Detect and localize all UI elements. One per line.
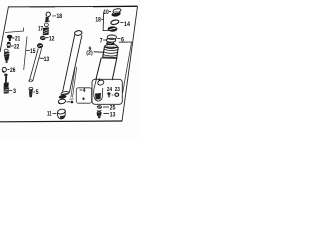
screw under 24 xyxy=(107,92,110,94)
ring 7 xyxy=(107,35,116,39)
label 5 xyxy=(33,91,35,93)
svg-text:12: 12 xyxy=(49,36,55,43)
label 14 xyxy=(120,21,123,23)
tube bottom rim xyxy=(61,91,69,95)
boot ribbed body xyxy=(103,47,119,58)
label 13 xyxy=(40,57,45,59)
bolt 13 bottom xyxy=(97,110,101,112)
label 4 xyxy=(80,89,83,91)
label 12 xyxy=(46,37,49,39)
svg-text:5: 5 xyxy=(36,89,39,96)
svg-text:11: 11 xyxy=(47,110,52,117)
svg-text:13: 13 xyxy=(44,56,50,63)
seat pipe 15 line xyxy=(24,37,27,71)
label 26 xyxy=(7,69,9,71)
svg-text:21: 21 xyxy=(15,36,21,43)
box2 xyxy=(92,79,122,104)
svg-text:3: 3 xyxy=(13,88,16,95)
slider tube xyxy=(96,58,102,80)
svg-text:24: 24 xyxy=(107,87,113,93)
svg-text:(2): (2) xyxy=(86,51,93,57)
boot top ellipse xyxy=(105,44,117,48)
box1 xyxy=(76,88,91,103)
slider bottom inside box2 xyxy=(95,78,96,84)
inner pipe pair right of tube xyxy=(71,67,75,98)
label 15 xyxy=(26,50,30,52)
valve stack under 22 xyxy=(4,49,8,52)
label 21 xyxy=(12,37,15,39)
svg-text:25: 25 xyxy=(110,106,116,112)
label 13 bottom xyxy=(103,113,109,115)
border frame left xyxy=(0,7,8,52)
border frame top xyxy=(8,5,138,8)
label 3 xyxy=(9,89,13,91)
piston 13 head xyxy=(37,43,43,48)
label 25 xyxy=(103,106,109,108)
svg-text:14: 14 xyxy=(124,21,130,28)
ring 6 xyxy=(106,38,115,42)
oil lock washer under tube xyxy=(58,99,66,105)
bush 11 xyxy=(57,108,66,114)
svg-text:7: 7 xyxy=(100,38,103,45)
bolt 21 xyxy=(7,35,12,39)
fork bolt cap 10 xyxy=(113,8,122,13)
box1 inner dot xyxy=(82,97,84,100)
tube bottom dark rings xyxy=(58,94,66,99)
svg-text:26: 26 xyxy=(10,67,16,74)
border frame right xyxy=(122,6,138,121)
leader line to box2 xyxy=(119,42,132,93)
svg-text:15: 15 xyxy=(30,48,36,55)
leader polyline left xyxy=(5,28,24,33)
stopper ring 18 right xyxy=(108,26,118,31)
washer 22 xyxy=(7,42,11,45)
label 18 top xyxy=(52,15,56,17)
piston 13 rod xyxy=(29,49,38,82)
svg-text:13: 13 xyxy=(110,113,116,119)
svg-text:18: 18 xyxy=(57,13,63,20)
washer 25 xyxy=(97,105,102,108)
small part 5 xyxy=(29,88,33,91)
circlip 18 xyxy=(46,12,50,16)
svg-text:10: 10 xyxy=(104,9,110,16)
svg-text:23: 23 xyxy=(115,87,120,93)
label 22 xyxy=(11,45,14,47)
svg-text:22: 22 xyxy=(14,44,20,51)
dark ring below 6 xyxy=(106,42,115,45)
pin under circlip xyxy=(45,17,49,22)
part 17 washer stack xyxy=(43,27,49,35)
washer 12 xyxy=(40,36,46,40)
label 6 xyxy=(117,38,120,40)
border frame bottom xyxy=(0,120,122,123)
washer under 23 xyxy=(115,93,119,96)
svg-text:18: 18 xyxy=(95,17,101,24)
o-ring 14 xyxy=(110,19,119,25)
spring stack 3 xyxy=(4,74,7,77)
part 17 ring xyxy=(45,23,49,27)
clip 26 xyxy=(2,68,6,72)
fork pipe (main tube) xyxy=(74,30,82,36)
